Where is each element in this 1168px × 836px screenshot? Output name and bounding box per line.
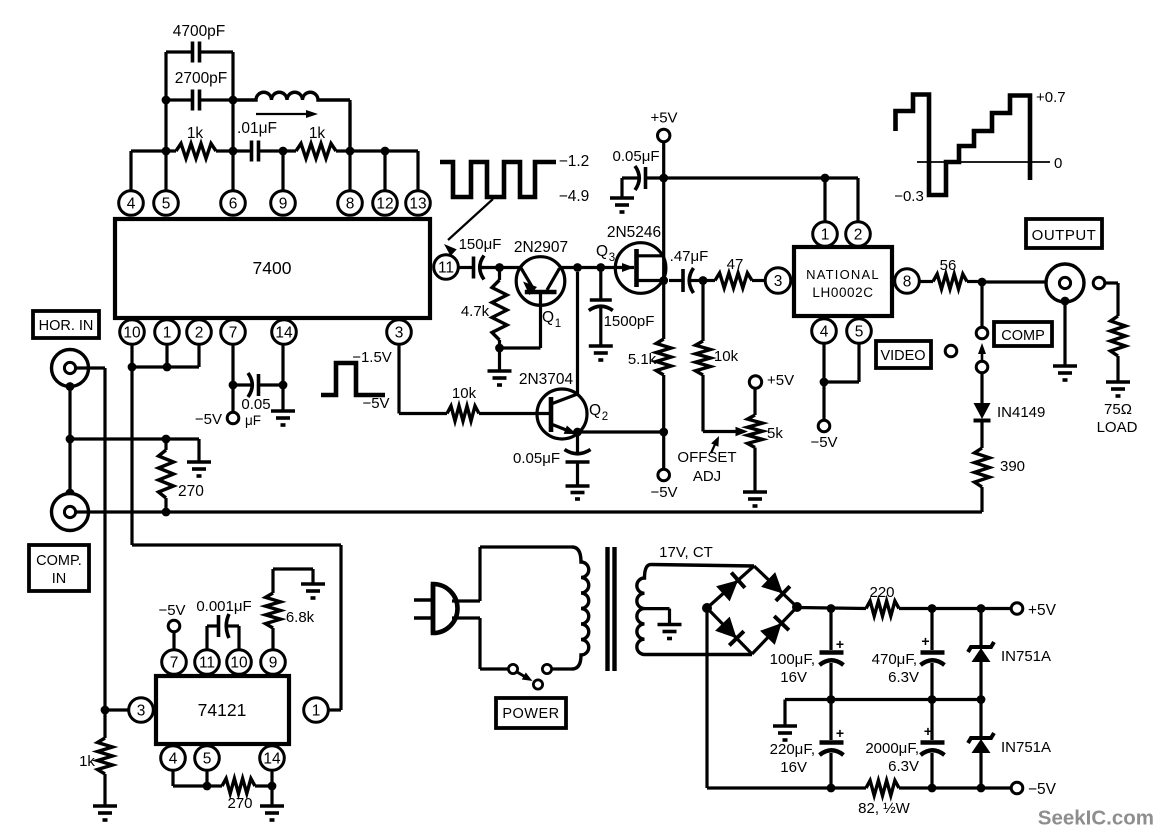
svg-text:220μF,: 220μF,	[770, 741, 815, 758]
wire Q2 emitter to -5V node	[578, 430, 664, 433]
svg-text:−5V: −5V	[362, 395, 389, 412]
label box OUTPUT	[1026, 219, 1102, 248]
wire +5V rail left	[797, 608, 866, 609]
resistor 10k (pin3) value label	[452, 385, 477, 402]
svg-text:14: 14	[263, 751, 281, 768]
wire pin13 up	[416, 151, 419, 191]
pin 1 of LH0002C	[813, 222, 838, 247]
label box COMP. IN	[29, 545, 89, 591]
svg-text:14: 14	[275, 325, 293, 342]
label -4.9 level	[559, 188, 590, 205]
pin 3 of LH0002C	[765, 268, 791, 294]
svg-text:IN751A: IN751A	[1001, 739, 1051, 756]
node 220uF mid	[827, 695, 836, 704]
wire inductor right down to pin 8 row	[348, 100, 351, 151]
resistor 1k (74121)	[98, 710, 113, 806]
waveform staircase axis	[917, 161, 1050, 163]
node row pin6	[229, 147, 238, 156]
node Q1 ground	[495, 344, 504, 353]
node +5V/0.05uF	[659, 174, 668, 183]
resistor 1k (left) value label	[187, 125, 204, 142]
resistor 56 value label	[940, 257, 957, 274]
svg-text:7: 7	[229, 325, 238, 342]
terminal -5V LH	[818, 382, 830, 432]
wire pins 10-1-2 tie	[132, 365, 199, 368]
label -1.2 level	[559, 153, 590, 170]
capacitor 1500pF	[589, 268, 613, 347]
svg-text:6.8k: 6.8k	[286, 609, 315, 626]
switch POWER	[508, 664, 572, 689]
pin 6 of 7400	[221, 191, 246, 216]
resistor 47	[703, 273, 765, 288]
pin 4 of 74121	[161, 746, 186, 771]
node Q2 emitter	[573, 428, 582, 437]
capacitor 0.05uF (7400 supply)	[233, 373, 283, 397]
bridge wire top-right	[754, 566, 797, 607]
pin 11 of 74121	[195, 650, 220, 675]
wire HOR IN vertical to 74121 pin3	[103, 368, 106, 710]
terminal COMP upper	[976, 327, 988, 339]
svg-text:LH0002C: LH0002C	[812, 285, 873, 300]
svg-text:−5V: −5V	[650, 484, 677, 501]
wire pin12 up	[383, 151, 386, 191]
terminal -5V Q2	[658, 432, 670, 481]
pin 7 of 7400	[221, 320, 246, 345]
svg-text:+0.7: +0.7	[1036, 89, 1066, 106]
node pin1 tie	[163, 363, 172, 372]
wire pin9 up	[281, 151, 284, 191]
wire pin4 down	[173, 770, 207, 786]
resistor 10k (pin3)	[399, 406, 551, 421]
terminal -5V at pin7	[227, 385, 239, 424]
capacitor 220uF value label	[770, 741, 815, 776]
svg-text:5: 5	[203, 751, 212, 768]
label -1.5V level	[352, 349, 392, 366]
svg-text:0: 0	[1054, 155, 1062, 172]
ground center tap	[658, 625, 682, 639]
svg-text:3: 3	[395, 325, 404, 342]
terminal load tap	[1093, 277, 1105, 289]
wire pin14 stub	[281, 344, 284, 385]
resistor 1k (right) value label	[309, 125, 326, 142]
wire ground branch down	[197, 439, 200, 462]
node 5.1k bottom	[659, 428, 668, 437]
svg-text:−5V: −5V	[1028, 781, 1057, 798]
capacitor 220uF plus	[836, 725, 844, 741]
resistor 4.7k value label	[461, 303, 490, 320]
pin 5 of 74121	[195, 746, 220, 771]
capacitor 2000uF value label	[865, 740, 919, 775]
node HOR IN shell	[66, 382, 75, 391]
svg-text:IN: IN	[52, 571, 67, 587]
svg-text:Q: Q	[596, 243, 608, 260]
capacitor .47uF	[669, 268, 703, 293]
svg-text:COMP: COMP	[1001, 328, 1045, 344]
node pin14 cap	[279, 381, 288, 390]
capacitor 4700pF value label	[173, 23, 226, 40]
AC plug	[414, 584, 458, 633]
svg-text:0.001μF: 0.001μF	[196, 598, 251, 615]
svg-text:470μF,: 470μF,	[872, 651, 917, 668]
pin 8 of LH0002C	[895, 269, 920, 294]
ground 5k pot	[743, 492, 767, 506]
ground 0.05uF top	[610, 198, 634, 212]
node Q1 base/4.7k	[495, 263, 504, 272]
resistor 4.7k	[492, 268, 507, 349]
resistor 220	[866, 601, 899, 616]
wire pin5 up	[164, 100, 167, 191]
label +5V offset	[767, 372, 794, 389]
wire secondary center tap	[645, 609, 670, 625]
transistor Q3 designator	[596, 243, 615, 264]
capacitor 2000uF	[921, 700, 945, 789]
capacitor 0.05uF (Q2) value label	[513, 450, 560, 467]
connector HOR. IN jack	[52, 350, 89, 387]
resistor 47 value label	[727, 256, 744, 273]
svg-text:1k: 1k	[79, 753, 95, 770]
node junction 2700pF left	[162, 96, 171, 105]
label +5V top	[650, 110, 677, 127]
label -5V level	[362, 395, 389, 412]
resistor 390 value label	[1000, 458, 1025, 475]
wire HOR IN shell down	[68, 387, 71, 494]
capacitor 4700pF	[166, 42, 233, 63]
bridge wire bottom-left	[707, 608, 752, 654]
resistor 1k (right)	[296, 144, 336, 159]
svg-text:1: 1	[821, 227, 830, 244]
pin 3 of 7400	[387, 320, 412, 345]
svg-text:6.3V: 6.3V	[888, 669, 919, 686]
svg-text:−5V: −5V	[810, 434, 837, 451]
svg-text:10k: 10k	[714, 348, 739, 365]
svg-text:1: 1	[555, 318, 561, 330]
zener diode IN751A (upper)	[968, 609, 994, 700]
resistor 270 (input)	[159, 439, 174, 512]
svg-text:1: 1	[163, 325, 172, 342]
wire Q1 emitter to Q3 gate	[559, 266, 616, 269]
resistor 1k (74121) value label	[79, 753, 95, 770]
wire 6.8k to ground	[273, 569, 313, 584]
svg-text:8: 8	[903, 274, 912, 291]
svg-text:7: 7	[170, 655, 179, 672]
capacitor 150uF	[471, 256, 484, 280]
capacitor .47uF value label	[670, 248, 709, 265]
arrow offset adj pointer	[711, 436, 719, 453]
svg-text:16V: 16V	[780, 669, 807, 686]
svg-text:390: 390	[1000, 458, 1025, 475]
wire 4700pF loop left	[164, 52, 167, 100]
transformer primary winding	[572, 547, 589, 669]
svg-text:VIDEO: VIDEO	[880, 348, 925, 364]
capacitor 470uF plus	[921, 633, 929, 649]
resistor 5.1k value label	[628, 351, 657, 368]
svg-text:82, ½W: 82, ½W	[858, 800, 911, 817]
wire offset wiper	[703, 427, 748, 436]
capacitor 100uF plus	[836, 636, 844, 652]
transistor Q2 2N3704 label	[519, 371, 574, 388]
resistor 270 (74121) value label	[227, 795, 252, 812]
wire pin7 stub	[231, 344, 234, 385]
pin 14 of 7400	[272, 320, 297, 345]
svg-text:6.3V: 6.3V	[888, 758, 919, 775]
node row pin5	[162, 147, 171, 156]
label box COMP	[994, 322, 1052, 346]
wire to 74121 pin 1	[328, 708, 341, 711]
wire pin4 up	[129, 151, 132, 191]
terminal VIDEO	[945, 345, 957, 357]
pin 11 of 7400	[434, 255, 459, 280]
svg-text:16V: 16V	[780, 759, 807, 776]
svg-text:5.1k: 5.1k	[628, 351, 657, 368]
resistor 5.1k	[656, 339, 671, 432]
node 100uF top	[827, 604, 836, 613]
svg-text:+: +	[921, 633, 929, 649]
svg-text:OFFSET: OFFSET	[677, 449, 736, 466]
svg-text:3: 3	[137, 703, 146, 720]
svg-text:10: 10	[230, 655, 248, 672]
terminal +5V offset	[749, 376, 761, 388]
svg-text:13: 13	[409, 196, 426, 213]
wire pin5 down LH	[824, 344, 859, 383]
resistor 10k (offset) value label	[714, 348, 739, 365]
label -5V at pin7	[195, 411, 222, 428]
label box POWER	[496, 698, 566, 728]
resistor 82	[866, 781, 899, 796]
svg-text:8: 8	[346, 196, 355, 213]
svg-text:1: 1	[312, 703, 321, 720]
capacitor 220uF	[820, 700, 844, 789]
wire -5V rail left	[707, 786, 866, 789]
resistor 270 (input) value label	[178, 483, 204, 500]
node junction 2700pF right	[229, 96, 238, 105]
node 47/10k	[699, 276, 708, 285]
pin 5 of LH0002C	[847, 319, 872, 344]
wire pin4 down LH	[822, 344, 825, 383]
wire pin14 down	[270, 770, 273, 806]
node 470uF top	[928, 604, 937, 613]
svg-text:220: 220	[869, 584, 894, 601]
label box VIDEO	[876, 341, 931, 368]
svg-text:3: 3	[774, 273, 783, 290]
pin 5 of 7400	[154, 191, 179, 216]
svg-text:−1.2: −1.2	[559, 153, 590, 170]
pin 2 of LH0002C	[846, 222, 871, 247]
pin 14 of 74121	[260, 746, 285, 771]
diode IN4149 label	[997, 404, 1045, 421]
node 2000uF mid	[928, 695, 937, 704]
waveform pulse at pin 3	[321, 363, 385, 395]
wire pin10 net down	[130, 367, 133, 545]
diode bridge D2 (top-right)	[761, 572, 790, 601]
capacitor 150uF value label	[459, 236, 502, 253]
wire pin3 down	[397, 344, 400, 414]
capacitor 100uF value label	[770, 651, 815, 686]
svg-text:+: +	[836, 725, 844, 741]
capacitor 0.05uF (top) value label	[613, 148, 660, 165]
svg-text:7400: 7400	[253, 258, 292, 278]
label OFFSET ADJ	[677, 449, 736, 485]
svg-text:SeekIC.com: SeekIC.com	[1038, 807, 1154, 830]
ground output shell	[1053, 366, 1077, 380]
node zener2 bottom	[977, 784, 986, 793]
node bridge right	[792, 602, 802, 612]
svg-text:4.7k: 4.7k	[461, 303, 490, 320]
wire pin5 down	[205, 770, 208, 786]
terminal COMP lower	[976, 361, 988, 373]
ground shell bus	[187, 462, 211, 476]
svg-text:−0.3: −0.3	[894, 188, 924, 205]
label -5V Q2	[650, 484, 677, 501]
capacitor 2700pF	[166, 90, 233, 111]
wire pin2 stub	[197, 344, 200, 367]
wire pin14 to ground	[281, 385, 284, 411]
resistor 6.8k	[266, 569, 281, 650]
svg-text:.47μF: .47μF	[670, 248, 709, 265]
wire pin8 up	[348, 103, 351, 191]
capacitor 0.001uF	[207, 614, 239, 650]
wire 150uF to Q1	[482, 266, 521, 269]
svg-text:2: 2	[854, 227, 863, 244]
wire load tap	[1105, 283, 1118, 316]
svg-text:6: 6	[229, 196, 238, 213]
wire pin10 net down to 74121 pin1	[339, 545, 342, 710]
bridge wire bottom-right	[752, 607, 797, 654]
svg-text:POWER: POWER	[502, 706, 559, 722]
pin 4 of LH0002C	[812, 319, 837, 344]
pin 7 of 74121	[162, 650, 187, 675]
svg-text:OUTPUT: OUTPUT	[1032, 227, 1097, 244]
terminal +5V top	[658, 129, 670, 141]
svg-text:0.05μF: 0.05μF	[513, 450, 560, 467]
svg-text:11: 11	[438, 260, 454, 277]
svg-text:9: 9	[269, 655, 278, 672]
wire pin1 stub up LH	[823, 178, 826, 222]
pin 10 of 7400	[120, 320, 145, 345]
wire to pin3 74121	[105, 708, 128, 711]
label -5V LH	[810, 434, 837, 451]
resistor 1k (left)	[176, 144, 216, 159]
wire +5V rail to LH pins	[664, 176, 858, 179]
ground pin14 74121	[260, 806, 284, 820]
ground pin14	[271, 411, 295, 425]
svg-text:2: 2	[195, 325, 204, 342]
svg-text:2700pF: 2700pF	[175, 70, 228, 87]
svg-text:−5V: −5V	[195, 411, 222, 428]
svg-text:IN751A: IN751A	[1001, 648, 1051, 665]
capacitor 2000uF plus	[924, 723, 932, 739]
wire bridge left to -5V rail	[705, 608, 708, 788]
label LOAD	[1097, 419, 1138, 436]
label -5V 74121	[158, 602, 185, 619]
wire comp net upper	[980, 282, 983, 328]
svg-text:75Ω: 75Ω	[1104, 401, 1132, 418]
node pins45	[820, 378, 829, 387]
wire 4700pF loop right	[231, 52, 234, 100]
capacitor 470uF	[921, 609, 945, 700]
svg-text:COMP.: COMP.	[36, 553, 82, 569]
waveform staircase	[896, 95, 1031, 196]
connector OUTPUT jack	[1046, 264, 1084, 302]
svg-text:2000μF,: 2000μF,	[865, 740, 919, 757]
resistor 6.8k value label	[286, 609, 315, 626]
wire +5V rail right	[899, 607, 1011, 610]
inductor L1	[233, 92, 350, 100]
svg-text:2: 2	[602, 411, 608, 423]
svg-text:NATIONAL: NATIONAL	[806, 267, 880, 282]
zener IN751A (upper) label	[1001, 648, 1051, 665]
svg-text:2N3704: 2N3704	[519, 371, 574, 388]
connector COMP. IN jack	[52, 494, 89, 531]
svg-text:10k: 10k	[452, 385, 477, 402]
svg-text:270: 270	[227, 795, 252, 812]
wire row to pin6	[216, 149, 248, 152]
wire Q1 collector to ground node	[500, 346, 541, 349]
resistor 390	[975, 448, 990, 512]
pin 4 of 7400	[119, 191, 144, 216]
diode bridge D1 (top-left)	[716, 573, 745, 602]
potentiometer 5k	[748, 389, 763, 493]
node row pin12	[381, 147, 390, 156]
node output/comp	[978, 278, 987, 287]
transformer secondary winding	[637, 565, 754, 655]
transformer core	[608, 547, 615, 671]
wire output shell to ground	[1063, 301, 1066, 366]
capacitor 1500pF value label	[604, 313, 655, 330]
pin 2 of 7400	[187, 320, 212, 345]
diode bridge D4 (bottom-right)	[760, 616, 789, 645]
svg-text:IN4149: IN4149	[997, 404, 1045, 421]
arrow current direction under inductor	[256, 110, 318, 118]
svg-text:+5V: +5V	[767, 372, 794, 389]
svg-text:HOR. IN: HOR. IN	[39, 318, 94, 334]
arrow waveform to pin 11	[444, 199, 493, 256]
label 75 ohm	[1104, 401, 1132, 418]
svg-text:+5V: +5V	[650, 110, 677, 127]
label box HOR. IN	[33, 311, 99, 338]
pin 12 of 7400	[373, 191, 398, 216]
pin 3 of 74121	[129, 698, 154, 723]
svg-text:2N2907: 2N2907	[514, 239, 568, 256]
resistor 270 (74121)	[207, 779, 272, 794]
ground 1500pF	[589, 346, 613, 360]
wire mid rail	[785, 700, 981, 727]
wire pin10 net across	[132, 543, 341, 546]
node pin14/270	[268, 782, 277, 791]
node zener mid	[977, 695, 986, 704]
pin 9 of 74121	[261, 650, 286, 675]
svg-text:9: 9	[279, 196, 288, 213]
terminal +5V rail	[1011, 603, 1023, 615]
node row pin9	[279, 147, 288, 156]
svg-text:μF: μF	[245, 413, 261, 428]
transistor Q2 designator	[589, 402, 608, 423]
node 1500pF tap	[596, 263, 605, 272]
node zener1 top	[977, 604, 986, 613]
capacitor .01uF value label	[237, 120, 277, 137]
node pin10 tie	[128, 363, 137, 372]
capacitor 470uF value label	[872, 651, 919, 686]
capacitor 0.05uF (Q2)	[565, 432, 591, 486]
node row pin8	[346, 147, 355, 156]
svg-text:0.05μF: 0.05μF	[613, 148, 660, 165]
wire pin11 to 150uF	[458, 266, 471, 269]
svg-text:5: 5	[855, 324, 864, 341]
pin 1 of 7400	[155, 320, 180, 345]
wire row right segment	[336, 149, 418, 152]
resistor 56	[920, 274, 983, 289]
resistor 82 value label	[858, 800, 911, 817]
ground 75 ohm load	[1106, 382, 1130, 396]
